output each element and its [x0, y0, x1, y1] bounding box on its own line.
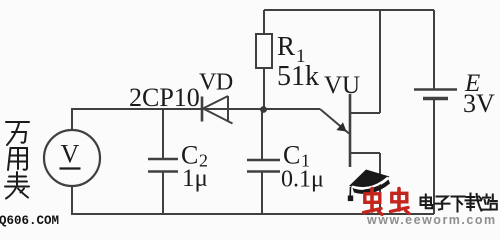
svg-text:0.1μ: 0.1μ [281, 167, 324, 193]
transistor VU emitter arrowhead [336, 122, 346, 131]
svg-text:V: V [61, 140, 80, 169]
label yong (Chinese) [8, 148, 27, 170]
svg-text:C: C [283, 141, 300, 170]
watermark graduation cap [348, 170, 390, 202]
svg-text:51k: 51k [277, 61, 319, 92]
watermark dian zi xia zai zhan (Chinese) [421, 194, 497, 212]
wire C2 bottom lead [162, 173, 164, 215]
diode VD cathode bar [201, 97, 204, 122]
wire battery bottom lead [433, 100, 435, 214]
wire C2 top lead [162, 109, 164, 158]
battery E negative plate [423, 97, 448, 101]
multimeter voltmeter V [44, 130, 100, 186]
svg-text:2CP10: 2CP10 [129, 83, 200, 112]
resistor R1 body [256, 34, 272, 68]
diode VD triangle [203, 96, 233, 124]
svg-text:Q606.COM: Q606.COM [0, 214, 59, 227]
svg-text:1μ: 1μ [182, 165, 208, 192]
wire top rail [264, 9, 434, 11]
wire VU emitter diagonal [320, 109, 349, 134]
svg-text:www.eeworm.com: www.eeworm.com [366, 213, 497, 227]
wire bottom rail [71, 213, 434, 215]
label wan (Chinese) [6, 122, 29, 145]
capacitor C1 [247, 159, 280, 162]
wire C1 top lead [261, 109, 263, 159]
wire VU B1 lead [350, 153, 380, 214]
wire VU B2 lead [350, 10, 380, 113]
node junction dot R1/C1/diode [260, 106, 267, 113]
wire voltmeter top lead [71, 108, 73, 130]
wire C1 bottom lead [261, 173, 263, 215]
wire battery top lead [433, 10, 435, 89]
battery E positive plate [414, 88, 457, 90]
capacitor C2 [148, 158, 178, 161]
wire voltmeter bottom lead [71, 186, 73, 214]
watermark chong chong (red) [364, 189, 410, 215]
svg-text:R: R [277, 31, 295, 61]
transistor VU base bar [349, 94, 352, 167]
wire R1 top lead [263, 10, 265, 34]
svg-text:VU: VU [324, 72, 360, 99]
label biao (Chinese) [5, 172, 29, 199]
wire R1 bottom lead [263, 68, 265, 109]
svg-text:VD: VD [199, 70, 233, 96]
svg-text:3V: 3V [463, 89, 495, 118]
wire middle rail [72, 108, 320, 110]
